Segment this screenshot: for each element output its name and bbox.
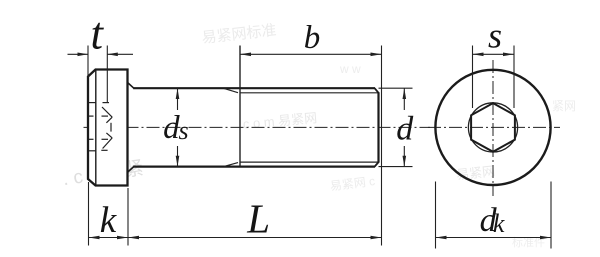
d extension line top <box>379 87 413 89</box>
dk extension line left <box>435 182 437 249</box>
socket chamfer circle <box>468 103 517 152</box>
t dimension line left tail <box>68 53 89 55</box>
dk arrow right <box>540 236 551 240</box>
dk arrow left <box>436 236 447 240</box>
thread minor diameter bottom line <box>240 161 379 163</box>
k/L extension line middle <box>127 188 129 246</box>
svg-text:k: k <box>493 209 505 238</box>
end chamfer top <box>375 88 379 93</box>
end face <box>377 92 379 162</box>
t extension line right / socket depth <box>106 46 108 103</box>
d arrow down <box>403 156 407 167</box>
centerline (main axis) <box>84 126 431 128</box>
s arrow right <box>503 53 514 57</box>
svg-text:b: b <box>304 20 321 56</box>
svg-text:d: d <box>396 111 414 148</box>
L arrow right <box>371 236 382 240</box>
thread runout top <box>224 88 238 92</box>
fillet under head (bottom) <box>128 167 134 173</box>
ds arrow down <box>176 156 180 167</box>
ds dimension line upper part <box>177 88 179 110</box>
b arrow left <box>240 53 251 57</box>
socket hidden line (lower wall) <box>89 150 96 152</box>
b dimension line <box>240 53 382 55</box>
shank top line <box>133 87 375 89</box>
t arrow right <box>107 53 118 57</box>
socket hidden line (lower inner corner) <box>89 138 94 140</box>
socket cone upper hidden diagonal <box>102 107 112 117</box>
watermark text <box>61 22 576 249</box>
b/L extension line right (bolt end) <box>381 46 383 246</box>
screw head outline <box>88 70 128 186</box>
d dimension line lower part <box>403 146 405 167</box>
k extension line left <box>88 182 90 246</box>
thread runout bottom <box>224 163 238 167</box>
t extension line left <box>87 46 89 77</box>
hex socket <box>471 103 515 152</box>
L arrow left <box>128 236 139 240</box>
dk dimension line <box>436 237 552 239</box>
socket cone tip vertical dash <box>110 123 112 132</box>
s dimension line <box>473 53 515 55</box>
d dimension line upper part <box>403 88 405 110</box>
fillet under head (top) <box>128 83 134 89</box>
svg-text:w w: w w <box>339 62 361 76</box>
ds arrow up <box>176 88 180 99</box>
socket cone lower hidden diagonal <box>103 138 113 149</box>
t dimension line right tail <box>107 53 133 55</box>
shank bottom line <box>133 166 375 168</box>
socket cone upper return dash <box>106 117 112 123</box>
end view vertical centerline <box>492 60 494 196</box>
s extension line left <box>472 46 474 109</box>
s extension line right <box>513 46 515 109</box>
t arrow left <box>78 53 89 57</box>
end view horizontal centerline <box>428 126 560 128</box>
k arrow right <box>117 236 128 240</box>
svg-text:s: s <box>488 16 502 56</box>
socket hidden line (upper wall) <box>89 102 96 104</box>
svg-text:紧网: 紧网 <box>552 99 576 113</box>
k arrow left <box>89 236 100 240</box>
head chamfer edge line <box>95 70 97 185</box>
s arrow left <box>473 53 484 57</box>
head outer circle <box>435 70 550 185</box>
L dimension line <box>128 237 382 239</box>
svg-text:k: k <box>100 200 117 241</box>
end chamfer bottom <box>375 162 379 167</box>
svg-text:s: s <box>179 116 189 145</box>
socket hidden line (upper inner corner) <box>89 115 94 117</box>
d arrow up <box>403 88 407 99</box>
b arrow right <box>371 53 382 57</box>
ds dimension line lower part <box>177 146 179 167</box>
svg-text:t: t <box>91 8 105 58</box>
thread minor diameter top line <box>240 92 379 94</box>
k dimension line <box>89 237 129 239</box>
dk extension line right <box>550 182 552 249</box>
socket cone lower return dash <box>106 133 112 138</box>
svg-text:L: L <box>246 196 270 242</box>
b extension line left (thread start) <box>239 46 241 167</box>
d extension line bottom <box>379 166 413 168</box>
